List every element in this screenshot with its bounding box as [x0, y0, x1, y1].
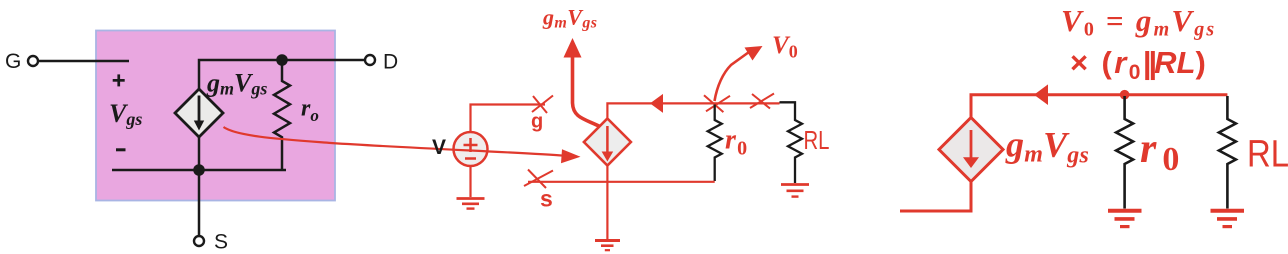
- annotation arrow (model to dependent source): [224, 127, 565, 156]
- X mark at ro node: [706, 96, 730, 112]
- terminal G: [28, 56, 38, 66]
- V1 plus: [464, 144, 478, 147]
- svg-text:G: G: [5, 50, 21, 73]
- ground (under RL right): [1211, 209, 1245, 213]
- output node rail (right): [971, 95, 1227, 118]
- wire V1 bottom to ground: [469, 166, 471, 197]
- U2 arrow: [606, 126, 609, 153]
- svg-text:g: g: [531, 111, 543, 133]
- U1 arrow (downward current): [198, 96, 201, 123]
- current direction arrowhead (right): [1034, 84, 1048, 105]
- svg-text:D: D: [383, 51, 398, 74]
- V0 pointer arrow: [715, 52, 750, 101]
- wire U1 bottom to source rail: [198, 137, 201, 170]
- dependent current source U3: [939, 118, 1003, 182]
- wire to terminal S: [198, 170, 201, 236]
- label - (Vgs polarity): [116, 148, 126, 151]
- wire G to gate (open end inside box): [38, 60, 129, 63]
- X mark at gate: [532, 96, 553, 113]
- svg-text:V0: V0: [772, 32, 798, 62]
- label + (Vgs polarity): [113, 79, 125, 82]
- terminal D: [365, 55, 375, 65]
- resistor r0 (right, black): [1116, 96, 1133, 209]
- wire U1 top to drain rail: [199, 60, 364, 89]
- source rail wire: [112, 169, 286, 172]
- node: drain rail / ro junction: [276, 54, 288, 66]
- node: source junction: [193, 164, 205, 176]
- U3 arrow: [970, 130, 973, 158]
- wire V1 top to gate: [471, 105, 546, 133]
- voltage source V1: [454, 132, 488, 166]
- ground (under r0 right): [1108, 209, 1142, 213]
- source rail wire (middle bottom): [528, 181, 715, 183]
- wire U3 bottom (return): [900, 182, 971, 212]
- current arrow gmVgs (big up arrow): [573, 55, 602, 127]
- svg-text:r0: r0: [725, 125, 748, 160]
- node (output): [1120, 90, 1130, 100]
- wire U2 bottom to ground: [606, 166, 608, 241]
- resistor RL (right, black): [1219, 96, 1236, 209]
- ground (under RL middle): [781, 183, 809, 186]
- model boundary box (pink): [96, 31, 335, 201]
- terminal S: [194, 236, 204, 246]
- current direction arrowhead on rail: [650, 94, 663, 113]
- dependent current source U1 (gmVgs): [175, 89, 223, 137]
- ground (under U2): [595, 239, 620, 242]
- svg-text:S: S: [214, 231, 228, 254]
- svg-text:× (r0||RL): × (r0||RL): [1070, 45, 1208, 84]
- svg-text:RL: RL: [804, 125, 830, 155]
- wire U2 top to output node rail: [607, 103, 779, 118]
- resistor RL (middle, black): [780, 102, 803, 183]
- X mark between ro and RL: [750, 94, 774, 109]
- svg-text:gmVgs: gmVgs: [542, 5, 597, 32]
- X mark at source: [524, 171, 553, 187]
- V1 minus: [465, 157, 476, 160]
- svg-text:gmVgs: gmVgs: [1005, 125, 1089, 169]
- svg-text:r0: r0: [1140, 126, 1185, 178]
- resistor ro (left): [274, 60, 290, 170]
- svg-text:V0 = gmVgs: V0 = gmVgs: [1061, 3, 1216, 41]
- svg-text:V: V: [432, 136, 446, 159]
- ground (under V1): [457, 197, 485, 200]
- resistor r0 (middle, black): [708, 105, 722, 182]
- svg-text:RL: RL: [1247, 134, 1288, 176]
- dependent current source U2: [584, 119, 631, 166]
- svg-text:s: s: [540, 186, 553, 212]
